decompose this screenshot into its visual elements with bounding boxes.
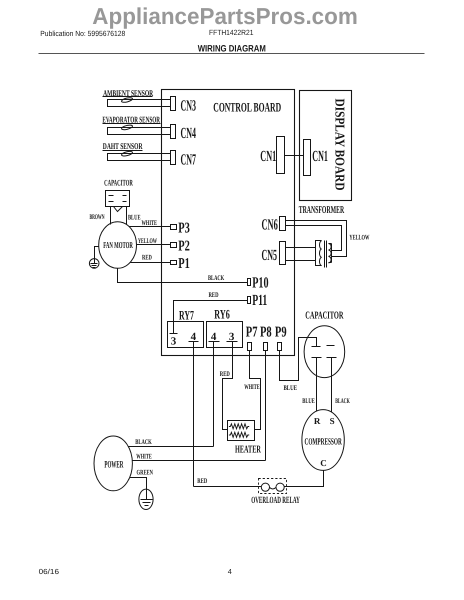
connector CN4: [171, 125, 197, 143]
pin P11: [248, 292, 268, 309]
wire white power to P8: [133, 453, 266, 461]
wire red bottom run: [194, 477, 262, 486]
svg-text:CONTROL BOARD: CONTROL BOARD: [213, 100, 281, 115]
pin label P7 P8 P9: [246, 325, 287, 341]
wire black power to RY6-4: [129, 438, 214, 446]
svg-text:P10: P10: [252, 275, 269, 292]
header logo: [92, 3, 358, 29]
footer date: [39, 567, 59, 576]
svg-text:P1: P1: [178, 256, 190, 272]
display board label: [333, 99, 348, 191]
ambient sensor: [103, 88, 171, 107]
svg-text:C: C: [320, 458, 327, 468]
svg-text:WIRING DIAGRAM: WIRING DIAGRAM: [198, 43, 266, 53]
svg-text:YELLOW: YELLOW: [349, 233, 369, 241]
svg-text:3: 3: [171, 336, 177, 348]
fan capacitor: [104, 178, 133, 212]
heater: [228, 421, 262, 456]
pin P10: [248, 275, 269, 292]
svg-text:BLACK: BLACK: [208, 274, 225, 282]
svg-text:CN7: CN7: [181, 152, 197, 169]
svg-text:CN1: CN1: [260, 148, 276, 165]
svg-text:06/16: 06/16: [39, 567, 59, 576]
RY7 terminal 3: [170, 334, 178, 348]
fan motor ground: [89, 247, 99, 269]
wire blue capacitor to fan motor: [127, 207, 141, 225]
display board box: [300, 91, 352, 201]
svg-text:FAN MOTOR: FAN MOTOR: [103, 240, 133, 250]
svg-text:CN3: CN3: [181, 98, 197, 115]
svg-text:BLACK: BLACK: [135, 438, 152, 446]
fan motor: [99, 222, 137, 269]
svg-text:HEATER: HEATER: [235, 445, 261, 456]
wire red RY7-4 down: [193, 342, 195, 487]
svg-text:P8: P8: [260, 325, 272, 341]
svg-text:RY7: RY7: [179, 307, 194, 322]
svg-text:BLUE: BLUE: [302, 397, 315, 405]
svg-text:FFTH1422R21: FFTH1422R21: [209, 28, 254, 37]
svg-text:P3: P3: [178, 221, 190, 237]
svg-text:S: S: [330, 416, 335, 426]
svg-text:BROWN: BROWN: [90, 213, 105, 221]
power source: [94, 436, 132, 491]
wire yellow CN6 to transformer secondary: [286, 221, 370, 257]
wire brown capacitor to fan motor: [90, 207, 111, 225]
svg-text:COMPRESSOR: COMPRESSOR: [305, 437, 342, 447]
footer page number: [228, 567, 232, 576]
wire black capacitor to compressor S: [332, 358, 351, 413]
wire green power to ground: [130, 469, 154, 490]
transformer label: [299, 205, 345, 216]
wire white P8 to power: [265, 351, 267, 461]
publication number: [40, 29, 125, 38]
control board label: [213, 100, 281, 115]
svg-text:OVERLOAD RELAY: OVERLOAD RELAY: [251, 496, 300, 506]
connector CN7: [171, 151, 197, 169]
svg-text:CAPACITOR: CAPACITOR: [305, 310, 343, 321]
wire compressor C to overload relay: [285, 471, 324, 487]
svg-text:CN1: CN1: [312, 148, 328, 165]
svg-text:RED: RED: [220, 370, 230, 378]
connector CN5: [262, 242, 286, 265]
wire white P7 to heater: [244, 351, 260, 430]
pin P2: [171, 238, 190, 254]
svg-text:WHITE: WHITE: [142, 219, 158, 227]
svg-text:Publication No: 5995676128: Publication No: 5995676128: [40, 29, 125, 38]
wire blue P9 to capacitor: [280, 338, 317, 392]
svg-text:BLUE: BLUE: [284, 384, 298, 392]
connector CN6: [262, 217, 286, 234]
svg-text:CN4: CN4: [181, 125, 197, 142]
svg-text:P2: P2: [178, 238, 190, 254]
svg-text:P9: P9: [275, 325, 287, 341]
svg-text:YELLOW: YELLOW: [138, 237, 157, 245]
svg-text:CAPACITOR: CAPACITOR: [104, 178, 133, 188]
pin P3: [171, 221, 190, 237]
svg-text:RED: RED: [209, 291, 219, 299]
svg-text:AppliancePartsPros.com: AppliancePartsPros.com: [92, 3, 358, 29]
transformer T1: [316, 241, 332, 268]
control board box: [162, 90, 295, 356]
run capacitor: [304, 310, 345, 377]
wire red fan to P1: [131, 254, 171, 263]
RY6 terminal 3: [227, 331, 238, 343]
pin P1: [171, 256, 190, 272]
connector CN1 pair control-to-display: [260, 137, 328, 176]
pin P9: [278, 343, 282, 351]
relay RY6: [207, 306, 243, 347]
svg-text:CN6: CN6: [262, 217, 278, 234]
svg-text:EVAPORATOR SENSOR: EVAPORATOR SENSOR: [102, 114, 160, 124]
RY7 terminal 4: [189, 331, 199, 343]
wire yellow fan to P2: [137, 237, 171, 245]
wire black RY6-4 to power: [213, 342, 215, 447]
svg-text:CN5: CN5: [262, 247, 278, 264]
wire red RY6-3 to heater: [220, 342, 233, 430]
svg-text:BLACK: BLACK: [335, 397, 350, 405]
relay RY7: [168, 307, 204, 347]
svg-text:RED: RED: [197, 477, 207, 485]
svg-text:4: 4: [228, 567, 232, 576]
pin P8: [264, 343, 268, 351]
svg-text:RED: RED: [142, 254, 152, 262]
daht sensor: [103, 141, 171, 160]
svg-text:DAHT SENSOR: DAHT SENSOR: [103, 141, 143, 151]
power ground: [139, 489, 153, 509]
svg-text:BLUE: BLUE: [128, 213, 141, 221]
connector CN3: [171, 97, 197, 115]
header rule: [39, 53, 425, 55]
svg-text:TRANSFORMER: TRANSFORMER: [299, 205, 345, 216]
overload relay: [251, 479, 300, 507]
title WIRING DIAGRAM: [198, 43, 266, 53]
svg-text:WHITE: WHITE: [136, 453, 152, 461]
svg-text:R: R: [314, 416, 321, 426]
wire CN5 to transformer primary: [286, 248, 316, 261]
svg-text:GREEN: GREEN: [137, 469, 154, 477]
wire white fan to P3: [130, 219, 171, 227]
svg-text:RY6: RY6: [214, 306, 230, 321]
pin P7: [248, 343, 252, 351]
svg-text:P7: P7: [246, 325, 258, 341]
svg-text:POWER: POWER: [104, 460, 123, 471]
svg-text:P11: P11: [252, 292, 267, 309]
wire black fan motor to P10: [118, 269, 248, 283]
RY6 terminal 4: [209, 331, 220, 343]
compressor: [302, 410, 344, 471]
svg-text:DISPLAY BOARD: DISPLAY BOARD: [333, 99, 348, 191]
wire blue capacitor to compressor R: [302, 358, 316, 412]
evaporator sensor: [102, 114, 170, 134]
model number FFTH1422R21: [209, 28, 254, 37]
wire red P11 to relay RY7: [174, 291, 248, 334]
svg-text:WHITE: WHITE: [244, 383, 260, 391]
